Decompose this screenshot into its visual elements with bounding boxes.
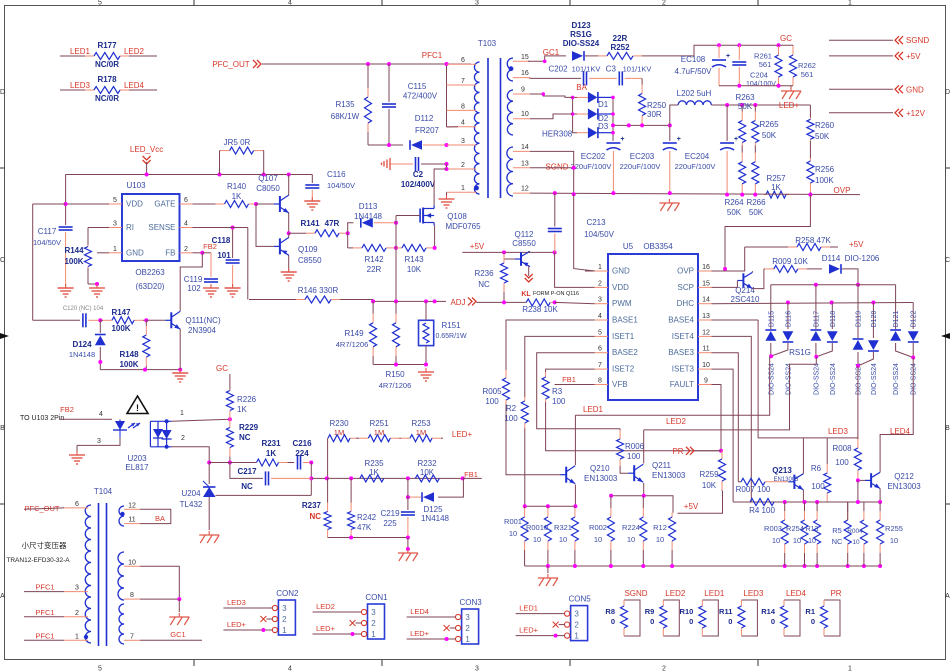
U5 pin 2 VDD (595, 286, 608, 288)
svg-text:FB: FB (165, 248, 175, 257)
svg-text:1: 1 (465, 635, 470, 644)
svg-text:4R7/1206: 4R7/1206 (336, 340, 369, 349)
capacitor C219 225 (401, 511, 415, 513)
svg-text:0: 0 (689, 617, 693, 626)
svg-text:ISET1: ISET1 (612, 332, 635, 341)
svg-text:PFC1: PFC1 (35, 583, 54, 592)
svg-text:10: 10 (702, 362, 710, 369)
svg-text:U103: U103 (126, 181, 146, 190)
svg-text:R3: R3 (552, 387, 563, 396)
ground T103 pin1 area (446, 192, 448, 196)
capacitor C2 102/400V (390, 163, 413, 165)
svg-text:R002: R002 (589, 523, 607, 532)
svg-text:EC202: EC202 (581, 152, 606, 161)
wire to ground (407, 538, 409, 550)
ground Q111 emitter (179, 369, 181, 373)
svg-text:R230: R230 (329, 419, 349, 428)
svg-text:DIO-SS24: DIO-SS24 (911, 363, 918, 395)
svg-text:R236: R236 (474, 269, 494, 278)
svg-text:102/400V: 102/400V (401, 180, 436, 189)
resistor R238 10K (476, 301, 526, 303)
svg-text:R4 100: R4 100 (749, 506, 775, 515)
svg-text:1: 1 (848, 666, 852, 672)
svg-text:100: 100 (485, 397, 499, 406)
svg-text:C119: C119 (184, 275, 203, 284)
resistor R008 100 (857, 438, 859, 439)
svg-text:D123: D123 (571, 21, 591, 30)
svg-text:22R: 22R (613, 34, 628, 43)
svg-text:L202 5uH: L202 5uH (677, 89, 712, 98)
svg-text:SGND: SGND (906, 36, 929, 45)
wire PFC_OUT to T103 pin6 (262, 63, 471, 65)
svg-text:2: 2 (465, 624, 470, 633)
svg-text:+: + (677, 136, 681, 143)
port GND (829, 88, 893, 90)
svg-text:3: 3 (97, 438, 101, 445)
wire FB2 to opto (60, 418, 105, 420)
svg-text:SGND: SGND (545, 163, 568, 172)
svg-text:104/50V: 104/50V (584, 230, 614, 239)
svg-text:D115: D115 (768, 311, 775, 327)
svg-text:7: 7 (130, 633, 134, 640)
svg-text:3: 3 (371, 608, 376, 617)
svg-text:R14: R14 (761, 607, 776, 616)
svg-text:R238 10K: R238 10K (522, 305, 558, 314)
svg-text:U204: U204 (181, 489, 201, 498)
T103 left winding pins (447, 63, 477, 65)
svg-text:9: 9 (704, 378, 708, 385)
U5 pin 16 OVP (698, 270, 712, 272)
svg-text:0: 0 (728, 617, 732, 626)
svg-text:VFB: VFB (612, 380, 628, 389)
svg-text:13: 13 (702, 313, 710, 320)
svg-text:MDF0765: MDF0765 (445, 222, 481, 231)
resistor R135 (367, 64, 369, 88)
svg-text:1M: 1M (416, 428, 426, 437)
svg-text:D1: D1 (598, 100, 609, 109)
resistor R142 22R (347, 233, 349, 248)
svg-text:SGND: SGND (624, 589, 647, 598)
svg-text:2N3904: 2N3904 (188, 326, 217, 335)
svg-text:5: 5 (98, 0, 102, 7)
wire Q211 emitter (643, 483, 645, 496)
resistor R257 1K (764, 194, 766, 196)
svg-text:RS1G: RS1G (789, 348, 811, 357)
capacitor C117 104/50V (65, 175, 67, 226)
resistor R001 10 (524, 506, 526, 508)
svg-text:FB1: FB1 (464, 470, 478, 479)
svg-text:472/400V: 472/400V (403, 92, 438, 101)
svg-text:R229: R229 (239, 423, 259, 432)
svg-text:R321: R321 (554, 523, 572, 532)
svg-text:NC: NC (309, 512, 321, 521)
resistor R258 47K (745, 246, 788, 248)
svg-text:EL817: EL817 (125, 463, 149, 472)
resistor R253 1M (400, 437, 401, 439)
IC U5 OB3354 (608, 254, 698, 400)
wire C3 to R250 (625, 77, 642, 79)
capacitor C216 224 (297, 456, 299, 470)
U5 pin 10 ISET3 (698, 368, 712, 370)
wire T104 pin10/pin8 (140, 566, 179, 599)
rail Q211 emitter resistors (611, 496, 673, 513)
svg-text:B: B (945, 425, 950, 432)
wire SENSE col to R146 row (247, 228, 249, 300)
svg-text:R232: R232 (417, 459, 437, 468)
wire Q109 emitter up (288, 233, 290, 237)
svg-text:R242: R242 (357, 513, 377, 522)
svg-text:2: 2 (184, 246, 188, 253)
svg-text:R235: R235 (364, 459, 384, 468)
wire Q112 base (504, 252, 515, 259)
U5 pin 11 BASE3 (698, 352, 712, 354)
svg-text:EN13003: EN13003 (773, 477, 799, 483)
resistor R242 47K (350, 478, 352, 502)
svg-text:B: B (0, 425, 5, 432)
resistor R0010 10 (547, 506, 549, 508)
T103 polarity dot pin15 (509, 66, 514, 71)
wire pin10 to anode col (530, 114, 573, 119)
U5 pin 3 PWM (595, 303, 608, 305)
svg-text:100K: 100K (64, 257, 83, 266)
svg-text:R264: R264 (724, 198, 744, 207)
ground on SGND rail (668, 199, 670, 203)
svg-text:EC203: EC203 (630, 152, 655, 161)
T104 right pins (124, 508, 140, 510)
svg-text:R009 10K: R009 10K (772, 257, 808, 266)
svg-text:R146 330R: R146 330R (298, 286, 339, 295)
svg-text:3: 3 (574, 610, 579, 619)
svg-text:R253: R253 (411, 419, 431, 428)
transistor Q112 C8550 (520, 252, 522, 266)
svg-text:LED4: LED4 (786, 589, 807, 598)
diode pair bottoms (770, 343, 772, 356)
svg-text:OVP: OVP (834, 186, 851, 195)
svg-text:50K: 50K (738, 102, 753, 111)
svg-text:FR207: FR207 (415, 126, 440, 135)
svg-text:LED3: LED3 (70, 81, 91, 90)
svg-text:SCP: SCP (678, 283, 694, 292)
svg-text:DIO-SS24: DIO-SS24 (893, 363, 900, 395)
svg-text:104/50V: 104/50V (33, 238, 61, 247)
svg-text:+5V: +5V (470, 242, 485, 251)
svg-text:101/1KV: 101/1KV (572, 65, 601, 74)
svg-text:10: 10 (521, 111, 529, 118)
svg-text:D3: D3 (598, 122, 609, 131)
resistor R230 1M (327, 437, 329, 439)
net KL symbol (528, 266, 530, 276)
svg-text:220uF/100V: 220uF/100V (571, 162, 612, 171)
svg-text:R001: R001 (504, 517, 522, 526)
svg-text:3: 3 (475, 666, 479, 672)
svg-text:KL: KL (521, 291, 531, 298)
svg-text:U203: U203 (127, 454, 147, 463)
U5 pin 6 BASE2 (595, 352, 608, 354)
svg-text:+5V: +5V (906, 52, 921, 61)
diode D122 DIO-SS24 (912, 303, 914, 330)
diode D114 DIO-1206 (829, 264, 840, 274)
svg-text:D112: D112 (415, 114, 434, 123)
svg-text:2: 2 (461, 162, 465, 169)
svg-text:OVP: OVP (677, 267, 694, 276)
svg-text:C202: C202 (548, 65, 568, 74)
resistor R149 4R7/1206 (372, 301, 374, 313)
svg-text:3: 3 (113, 221, 117, 228)
svg-text:2: 2 (662, 666, 666, 672)
connector CON2 (278, 600, 295, 635)
ground opto pin3 (76, 445, 78, 452)
svg-text:100K: 100K (119, 360, 138, 369)
svg-text:6: 6 (598, 346, 602, 353)
svg-text:5: 5 (598, 329, 602, 336)
resistor R006 100 (619, 429, 621, 430)
svg-text:561: 561 (759, 60, 772, 69)
svg-text:FB2: FB2 (203, 242, 217, 251)
wire BASE3 col (712, 353, 739, 482)
svg-text:DIO-1206: DIO-1206 (845, 254, 880, 263)
capacitor C115 (388, 64, 390, 102)
wire R229 bottom to C217 row (230, 463, 263, 479)
svg-text:R10: R10 (680, 607, 694, 616)
svg-text:47K: 47K (357, 523, 372, 532)
svg-text:R257: R257 (766, 174, 786, 183)
diode D112 FR207 (411, 140, 422, 150)
svg-text:3: 3 (75, 585, 79, 592)
resistor R007 100 (738, 481, 741, 483)
svg-text:12: 12 (128, 502, 136, 509)
svg-text:C213: C213 (586, 218, 606, 227)
svg-text:CON3: CON3 (459, 598, 482, 607)
svg-text:Q211: Q211 (652, 461, 672, 470)
ground C219 rail (407, 549, 409, 553)
svg-text:LED_Vcc: LED_Vcc (130, 145, 163, 154)
transistor Q107 C8050 (279, 196, 281, 212)
capacitor C3 101/1KV (589, 77, 617, 79)
svg-text:12: 12 (702, 329, 710, 336)
svg-text:EC108: EC108 (681, 55, 706, 64)
port +12V (829, 112, 893, 114)
svg-text:C8050: C8050 (256, 184, 280, 193)
svg-text:100: 100 (835, 458, 849, 467)
resistor R321 10 (574, 506, 576, 508)
svg-text:HER308: HER308 (542, 130, 573, 139)
svg-text:0: 0 (771, 617, 775, 626)
wire Q107 collector (288, 175, 290, 196)
resistor R143 10K (396, 247, 402, 249)
diode D118 DIO-SS24 (831, 303, 833, 330)
svg-text:!: ! (136, 403, 139, 413)
svg-text:D: D (945, 89, 950, 96)
svg-text:D: D (0, 89, 5, 96)
svg-text:1K: 1K (771, 183, 781, 192)
wire Q109 collector to ground (288, 255, 290, 272)
svg-text:10: 10 (890, 536, 898, 545)
connector CON1 (368, 604, 385, 639)
diode D117 DIO-SS24 (815, 285, 817, 329)
svg-text:100: 100 (811, 482, 825, 491)
connector CON5 (571, 606, 588, 641)
wire R005 to Q210 base (506, 404, 561, 475)
wire Q210 collector to LED1 (574, 415, 576, 465)
wire T104 pin12 loop (140, 509, 171, 523)
resistor R231 1K (255, 462, 257, 464)
wire U204 ref (216, 494, 312, 496)
wire Q211 collector to LED2 (643, 430, 645, 464)
diode bank rail A (771, 284, 896, 286)
diode bank rail B / DHC (712, 303, 914, 304)
svg-text:(63D20): (63D20) (136, 282, 165, 291)
svg-text:DIO-SS24: DIO-SS24 (563, 39, 600, 48)
svg-text:4R7/1206: 4R7/1206 (379, 381, 412, 390)
wire R006 to Q211 base (620, 466, 628, 473)
svg-text:C116: C116 (327, 170, 346, 179)
svg-text:1M: 1M (374, 428, 384, 437)
ground R144/GND (96, 284, 98, 288)
capacitor EC203 220uF/100V (669, 125, 671, 141)
svg-text:1M: 1M (334, 428, 344, 437)
wire SCP to Q214 base (712, 281, 738, 288)
svg-text:LED2: LED2 (665, 589, 686, 598)
svg-text:NC: NC (239, 433, 251, 442)
svg-text:C3: C3 (606, 65, 617, 74)
wire Q212 collector to LED4 (880, 435, 882, 473)
svg-text:R143: R143 (404, 255, 424, 264)
svg-text:10: 10 (627, 535, 635, 544)
svg-text:3: 3 (282, 604, 287, 613)
wires T103 pins 14 13 tie (530, 151, 574, 194)
svg-text:1N4148: 1N4148 (69, 350, 95, 359)
ground below GC row (790, 86, 792, 90)
svg-text:1N4148: 1N4148 (354, 212, 383, 221)
svg-text:LED3: LED3 (743, 589, 764, 598)
svg-text:R13: R13 (806, 526, 819, 533)
svg-text:LED1: LED1 (519, 604, 538, 613)
wire EC108/R261/R262 bottom row (719, 85, 793, 87)
svg-text:2: 2 (181, 435, 185, 442)
wire FAULT col to PR (712, 385, 722, 451)
svg-text:R1: R1 (805, 607, 815, 616)
svg-text:R178: R178 (97, 75, 117, 84)
svg-text:EN13003: EN13003 (584, 474, 618, 483)
svg-text:D117: D117 (813, 311, 820, 327)
transistor Q214 2SC410 (742, 273, 744, 287)
ground C117 (65, 284, 67, 288)
svg-text:3: 3 (598, 297, 602, 304)
resistor R232 10K (415, 475, 439, 482)
svg-text:CON1: CON1 (365, 593, 388, 602)
resistor R236 NC (503, 252, 505, 254)
svg-text:10: 10 (772, 536, 780, 545)
svg-text:D116: D116 (785, 311, 792, 327)
optocoupler U203 EL817 (105, 418, 112, 420)
wire Q107 emitter to R141 node (288, 213, 290, 233)
resistor R144 100K (88, 227, 109, 229)
capacitor EC202 220uF/100V (606, 142, 620, 144)
svg-text:10K: 10K (420, 468, 435, 477)
svg-text:R003: R003 (764, 524, 782, 533)
svg-text:15: 15 (521, 54, 529, 61)
U5 pin 13 BASE4 (698, 319, 712, 321)
svg-text:1: 1 (282, 626, 287, 635)
svg-text:R147: R147 (111, 308, 131, 317)
transistor Q210 EN13003 (565, 467, 567, 483)
svg-text:D119: D119 (856, 311, 863, 327)
svg-text:50K: 50K (762, 131, 777, 140)
svg-text:BA: BA (155, 514, 165, 523)
svg-text:10: 10 (808, 538, 816, 545)
svg-text:PFC1: PFC1 (35, 631, 54, 640)
svg-text:R231: R231 (261, 439, 281, 448)
T104 left pins (64, 507, 88, 509)
diode D121 DIO-SS24 (895, 285, 897, 329)
svg-text:15: 15 (702, 280, 710, 287)
svg-text:GC1: GC1 (170, 630, 185, 639)
wire C217 row to FB1 (327, 477, 463, 479)
svg-text:100K: 100K (815, 176, 834, 185)
wire R252 to +5V bus (648, 45, 793, 56)
svg-text:R006: R006 (625, 442, 645, 451)
wire bottom rail R237/R242/C219 (328, 537, 408, 539)
wire ISET4 col (712, 336, 752, 502)
transistor Q109 C8550 (279, 238, 281, 254)
wire gate col (395, 216, 397, 302)
svg-text:14: 14 (702, 297, 710, 304)
svg-text:小尺寸变压器: 小尺寸变压器 (22, 540, 67, 550)
wire ISET1 col to R2 (525, 336, 595, 397)
svg-text:LED+: LED+ (779, 101, 800, 110)
svg-text:PWM: PWM (612, 299, 632, 308)
svg-text:C2: C2 (413, 170, 424, 179)
svg-text:C219: C219 (380, 509, 400, 518)
transistor Q111(NC) 2N3904 (170, 312, 172, 328)
svg-text:ISET4: ISET4 (672, 332, 695, 341)
svg-text:DIO-SS24: DIO-SS24 (871, 363, 878, 395)
svg-text:224: 224 (295, 449, 309, 458)
svg-text:R266: R266 (746, 198, 766, 207)
wire SENSE row (193, 227, 248, 229)
resistor R2 100 (524, 397, 526, 401)
resistor R146 330R (249, 299, 296, 301)
resistor R6 100 (826, 438, 828, 464)
svg-text:68K/1W: 68K/1W (331, 112, 360, 121)
U5 pin 7 ISET2 (595, 368, 608, 370)
svg-text:C: C (945, 257, 950, 264)
svg-text:LED+: LED+ (452, 430, 473, 439)
wire D anodes col (573, 97, 577, 132)
svg-text:R255: R255 (885, 524, 903, 533)
svg-text:4: 4 (288, 0, 292, 7)
svg-text:R142: R142 (364, 255, 384, 264)
wire cathode col (612, 97, 614, 141)
resistor R252 22R (585, 55, 598, 57)
svg-text:4.7uF/50V: 4.7uF/50V (675, 67, 713, 76)
svg-text:C117: C117 (38, 227, 57, 236)
svg-text:12: 12 (521, 186, 529, 193)
svg-text:1: 1 (461, 185, 465, 192)
svg-text:D113: D113 (359, 202, 378, 211)
svg-text:3: 3 (465, 613, 470, 622)
resistor R250 30R (641, 83, 643, 86)
resistor R12 10 (671, 513, 673, 517)
svg-text:LED3: LED3 (227, 598, 246, 607)
svg-text:220uF/100V: 220uF/100V (620, 162, 661, 171)
svg-text:8: 8 (461, 103, 465, 110)
svg-text:C120 (NC) 104: C120 (NC) 104 (63, 306, 104, 312)
svg-text:100: 100 (627, 452, 641, 461)
svg-text:VDD: VDD (126, 200, 143, 209)
svg-text:1: 1 (598, 264, 602, 271)
ground C119 (210, 284, 212, 288)
